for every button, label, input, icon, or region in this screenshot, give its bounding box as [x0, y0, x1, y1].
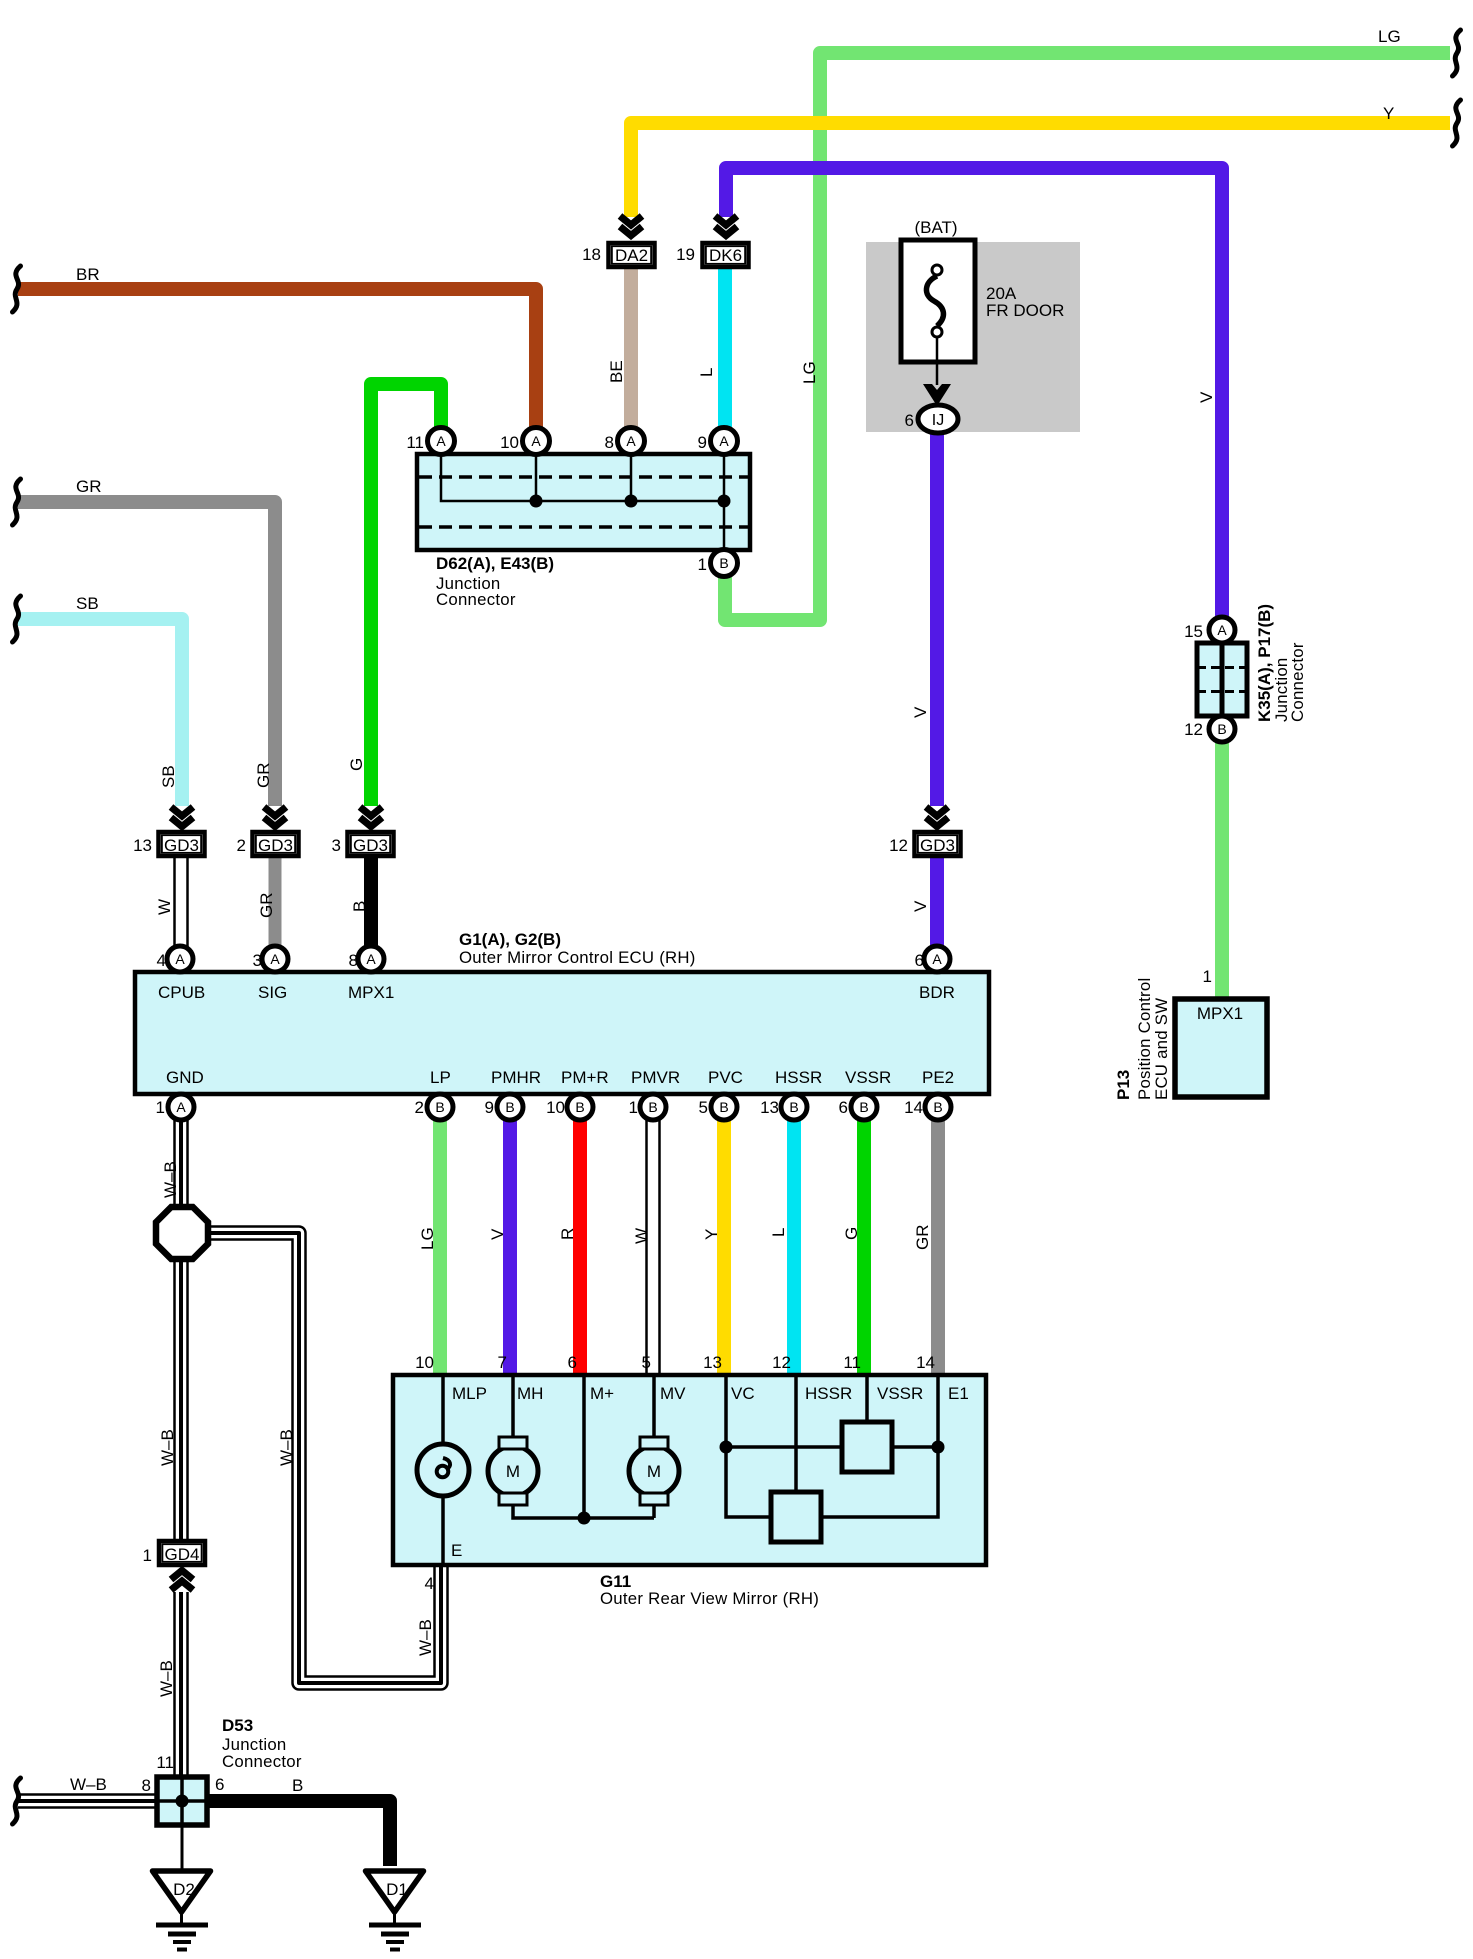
svg-text:14: 14 — [916, 1353, 935, 1372]
D62 pin 1 B — [711, 550, 738, 577]
fuse panel gray box — [866, 242, 1080, 432]
svg-text:11: 11 — [406, 433, 424, 452]
svg-text:A: A — [531, 433, 541, 449]
component square (HSSR heater) — [771, 1492, 821, 1542]
ECU pin 1 B — [640, 1094, 666, 1120]
svg-text:W: W — [632, 1228, 651, 1244]
svg-text:GR: GR — [257, 893, 276, 919]
wire V (DK6 to K35 pin 15A) — [726, 168, 1222, 624]
mirror pin names — [452, 1384, 969, 1403]
svg-text:PE2: PE2 — [922, 1068, 954, 1087]
wire GR (ECU PE2 to mirror E1) — [931, 1118, 945, 1378]
lamp MLP — [417, 1444, 469, 1496]
off-page squiggle LG — [1453, 30, 1461, 76]
wire (D53 bottom to ground D2) — [181, 1824, 184, 1870]
wire L (ECU HSSR to mirror HSSR) — [787, 1118, 801, 1378]
svg-text:GR: GR — [254, 763, 273, 789]
svg-text:MV: MV — [660, 1384, 686, 1403]
ECU top pin names — [158, 983, 955, 1002]
mirror pin numbers — [415, 1353, 935, 1372]
svg-text:10: 10 — [546, 1098, 565, 1117]
svg-text:FR DOOR: FR DOOR — [986, 301, 1064, 320]
arrow into DK6 — [715, 216, 737, 236]
svg-text:M: M — [647, 1462, 661, 1481]
fuse 20A FR DOOR — [901, 240, 975, 406]
connector IJ oval — [918, 405, 958, 433]
svg-text:R: R — [558, 1228, 577, 1240]
wire W-B (octagon down to GD4) — [173, 1255, 189, 1542]
svg-text:LG: LG — [800, 361, 819, 384]
D62 pin 8 A — [618, 428, 645, 455]
svg-text:B: B — [648, 1099, 657, 1115]
label D53 Junction Connector — [222, 1716, 302, 1771]
arrow into GD4 (pointing up) — [171, 1571, 193, 1591]
svg-text:SB: SB — [159, 765, 178, 788]
svg-text:PM+R: PM+R — [561, 1068, 609, 1087]
svg-text:1: 1 — [629, 1098, 638, 1117]
connector GD3 #2 — [253, 832, 299, 856]
connector DA2 — [609, 243, 655, 267]
svg-text:A: A — [719, 433, 729, 449]
svg-text:MLP: MLP — [452, 1384, 487, 1403]
off-page squiggle BR — [13, 266, 21, 312]
wire W-B (GD4 arrow down to D53 pin 11) — [173, 1592, 189, 1779]
P13 box Position Control ECU and SW — [1175, 999, 1267, 1097]
svg-text:G1(A), G2(B): G1(A), G2(B) — [459, 930, 561, 949]
svg-text:6: 6 — [215, 1775, 224, 1794]
component square (VSSR sensor) — [842, 1422, 892, 1472]
arrow into GD3 #3 — [360, 807, 382, 827]
wire BR (left edge to D62 pin 10A) — [18, 289, 536, 430]
svg-text:6: 6 — [568, 1353, 577, 1372]
ECU pin 14 B — [925, 1094, 951, 1120]
svg-text:12: 12 — [1184, 720, 1203, 739]
svg-text:13: 13 — [760, 1098, 779, 1117]
connector GD3 #12 — [915, 832, 961, 856]
svg-text:W–B: W–B — [416, 1619, 435, 1656]
svg-text:18: 18 — [582, 245, 601, 264]
svg-text:Y: Y — [702, 1229, 721, 1240]
ground D2 — [153, 1871, 211, 1950]
svg-text:E1: E1 — [948, 1384, 969, 1403]
svg-text:BR: BR — [76, 265, 100, 284]
svg-text:M+: M+ — [590, 1384, 614, 1403]
wire R (ECU PM+R to mirror M+) — [573, 1118, 587, 1378]
label D62(A), E43(B) Junction Connector — [436, 554, 554, 609]
wire SB (left edge to GD3 #13) — [18, 619, 182, 806]
svg-text:GND: GND — [166, 1068, 204, 1087]
ECU pin 3 A — [262, 946, 288, 972]
svg-text:GR: GR — [76, 477, 102, 496]
svg-text:A: A — [175, 951, 185, 967]
ECU pin 2 B — [427, 1094, 453, 1120]
wire L (DK6 to D62 pin 9A) — [718, 266, 732, 430]
ECU pin 13 B — [781, 1094, 807, 1120]
svg-text:MH: MH — [517, 1384, 543, 1403]
svg-text:12: 12 — [889, 836, 908, 855]
svg-text:GR: GR — [913, 1225, 932, 1251]
svg-text:19: 19 — [676, 245, 695, 264]
svg-text:SB: SB — [76, 594, 99, 613]
svg-text:10: 10 — [415, 1353, 434, 1372]
svg-text:HSSR: HSSR — [775, 1068, 822, 1087]
svg-text:DA2: DA2 — [615, 246, 648, 265]
svg-text:V: V — [911, 900, 930, 912]
svg-text:12: 12 — [772, 1353, 791, 1372]
ECU pin 10 B — [567, 1094, 593, 1120]
svg-text:B: B — [435, 1099, 444, 1115]
svg-text:SIG: SIG — [258, 983, 287, 1002]
wire W-B (octagon branch right-down-right-up to mirror pin 4 E) — [206, 1233, 441, 1683]
wire Y (top right to DA2) — [631, 123, 1450, 217]
label G11 Outer Rear View Mirror — [600, 1572, 819, 1608]
wire LG battery feed (top right to D62 pin 1B) — [725, 53, 1450, 620]
connector GD3 #3 — [348, 832, 394, 856]
D62 pin 9 A — [711, 428, 738, 455]
D62 pin numbers — [406, 433, 707, 574]
wire G (ECU VSSR to mirror VSSR) — [857, 1118, 871, 1378]
svg-text:V: V — [911, 706, 930, 718]
svg-text:9: 9 — [485, 1098, 494, 1117]
svg-text:7: 7 — [498, 1353, 507, 1372]
ground D1 — [366, 1871, 424, 1950]
svg-text:BDR: BDR — [919, 983, 955, 1002]
svg-text:Connector: Connector — [1288, 642, 1307, 722]
label 20A FR DOOR — [986, 284, 1064, 320]
arrow into DA2 — [620, 216, 642, 236]
svg-text:15: 15 — [1184, 622, 1203, 641]
off-page squiggle GR — [13, 479, 21, 525]
label K35(A), P17(B) Junction Connector rotated — [1255, 604, 1307, 722]
svg-text:1: 1 — [143, 1546, 152, 1565]
svg-text:V: V — [488, 1228, 507, 1240]
wire V (GD3 #12 to ECU pin 6A BDR) — [930, 857, 944, 950]
svg-text:Connector: Connector — [222, 1752, 302, 1771]
svg-text:PMVR: PMVR — [631, 1068, 680, 1087]
svg-text:5: 5 — [642, 1353, 651, 1372]
label P13 Position Control ECU and SW rotated — [1114, 978, 1171, 1100]
svg-text:M: M — [506, 1462, 520, 1481]
junction connector D53 — [157, 1777, 207, 1825]
svg-text:E: E — [451, 1541, 462, 1560]
octagon junction — [156, 1207, 208, 1259]
svg-text:LG: LG — [1378, 27, 1401, 46]
svg-text:G: G — [842, 1227, 861, 1240]
svg-text:CPUB: CPUB — [158, 983, 205, 1002]
ECU pin 6 A — [924, 946, 950, 972]
arrow into GD3 #2 — [264, 807, 286, 827]
svg-text:MPX1: MPX1 — [348, 983, 394, 1002]
wire color labels rotated mid — [418, 1225, 932, 1251]
svg-text:B: B — [505, 1099, 514, 1115]
svg-text:B: B — [575, 1099, 584, 1115]
svg-text:6: 6 — [839, 1098, 848, 1117]
svg-text:GD3: GD3 — [164, 836, 199, 855]
svg-text:L: L — [697, 368, 716, 377]
svg-text:G: G — [347, 758, 366, 771]
svg-text:B: B — [859, 1099, 868, 1115]
svg-text:(BAT): (BAT) — [914, 218, 957, 237]
ECU pin 9 B — [497, 1094, 523, 1120]
connector GD4 with up arrow — [159, 1541, 205, 1565]
wire GR (left edge to GD3 #2) — [18, 502, 275, 806]
D62 pin 10 A — [523, 428, 550, 455]
connector GD3 #13 — [159, 832, 205, 856]
svg-text:B: B — [789, 1099, 798, 1115]
wire LG (ECU LP to mirror MLP) — [433, 1118, 447, 1378]
svg-text:A: A — [626, 433, 636, 449]
svg-text:BE: BE — [607, 360, 626, 383]
svg-text:A: A — [1217, 622, 1227, 638]
wire W-B (left edge to D53 pin 8) — [18, 1793, 160, 1809]
svg-text:A: A — [436, 433, 446, 449]
svg-text:ECU and SW: ECU and SW — [1152, 998, 1171, 1100]
K35 pin numbers — [1184, 622, 1203, 739]
svg-text:PMHR: PMHR — [491, 1068, 541, 1087]
svg-text:6: 6 — [915, 951, 924, 970]
svg-text:8: 8 — [349, 951, 358, 970]
svg-text:B: B — [719, 555, 728, 571]
wire BE (DA2 to D62 pin 8A) — [624, 266, 638, 430]
svg-text:GD4: GD4 — [165, 1545, 200, 1564]
svg-text:1: 1 — [1203, 967, 1212, 986]
svg-text:PVC: PVC — [708, 1068, 743, 1087]
wire Y (ECU PVC to mirror VC) — [717, 1118, 731, 1378]
wire W-B (ECU pin 1A GND down to octagon junction) — [173, 1118, 189, 1213]
junction connector K35(A),P17(B) — [1197, 643, 1247, 716]
svg-text:W–B: W–B — [70, 1775, 107, 1794]
svg-text:W–B: W–B — [157, 1660, 176, 1697]
svg-text:3: 3 — [332, 836, 341, 855]
svg-text:8: 8 — [142, 1776, 151, 1795]
wire W (ECU PMVR to mirror MV) — [645, 1118, 661, 1378]
motor M (MH) — [488, 1437, 538, 1505]
svg-text:A: A — [270, 951, 280, 967]
svg-text:D2: D2 — [173, 1880, 195, 1899]
svg-text:P13: P13 — [1114, 1070, 1133, 1100]
ECU bottom pin names — [166, 1068, 954, 1087]
wire B (GD3 #3 to ECU pin 8A MPX1) — [364, 857, 378, 950]
motor M (MV) — [629, 1437, 679, 1505]
svg-text:2: 2 — [415, 1098, 424, 1117]
wire GR (GD3 #2 to ECU pin 3A SIG) — [269, 857, 282, 950]
ECU bottom pin numbers — [156, 1098, 923, 1117]
svg-text:W–B: W–B — [161, 1161, 180, 1198]
svg-text:B: B — [1217, 721, 1226, 737]
svg-text:LP: LP — [430, 1068, 451, 1087]
svg-text:Outer Mirror Control ECU (RH): Outer Mirror Control ECU (RH) — [459, 948, 696, 967]
junction connector D62(A),E43(B) — [417, 454, 750, 550]
ECU pin 6 B — [851, 1094, 877, 1120]
arrow into GD3 #13 — [171, 807, 193, 827]
svg-text:4: 4 — [157, 951, 166, 970]
svg-text:11: 11 — [843, 1353, 861, 1372]
D62 pin 11 A — [428, 428, 455, 455]
svg-text:3: 3 — [253, 951, 262, 970]
K35 pin 12 B — [1209, 716, 1235, 742]
svg-text:9: 9 — [698, 433, 707, 452]
svg-text:2: 2 — [237, 836, 246, 855]
svg-text:6: 6 — [905, 411, 914, 430]
svg-text:W–B: W–B — [158, 1429, 177, 1466]
label G1(A), G2(B) ECU title — [459, 930, 696, 967]
svg-text:W: W — [155, 899, 174, 915]
connector DK6 — [703, 243, 749, 267]
ECU pin 8 A — [358, 946, 384, 972]
svg-text:14: 14 — [904, 1098, 923, 1117]
arrow into GD3 #12 — [926, 807, 948, 827]
wire V (fuse IJ to GD3 #12) — [930, 430, 944, 806]
svg-text:V: V — [1197, 391, 1216, 403]
svg-text:HSSR: HSSR — [805, 1384, 852, 1403]
svg-text:A: A — [932, 951, 942, 967]
svg-text:8: 8 — [605, 433, 614, 452]
mirror box G11 — [393, 1375, 986, 1565]
svg-text:1: 1 — [698, 555, 707, 574]
wire G (D62 pin 11A to GD3 #3) — [371, 384, 441, 806]
svg-text:VSSR: VSSR — [877, 1384, 923, 1403]
off-page squiggle W-B — [13, 1778, 21, 1824]
svg-text:MPX1: MPX1 — [1197, 1004, 1243, 1023]
wire V (ECU PMHR to mirror MH) — [503, 1118, 517, 1378]
svg-text:13: 13 — [703, 1353, 722, 1372]
wire LG (K35 pin 12B to P13 MPX1) — [1215, 740, 1229, 998]
svg-text:A: A — [366, 951, 376, 967]
svg-text:D53: D53 — [222, 1716, 253, 1735]
svg-text:1: 1 — [156, 1098, 165, 1117]
off-page squiggle Y — [1453, 100, 1461, 146]
svg-text:LG: LG — [418, 1227, 437, 1250]
svg-text:VSSR: VSSR — [845, 1068, 891, 1087]
svg-text:10: 10 — [500, 433, 519, 452]
svg-text:GD3: GD3 — [353, 836, 388, 855]
svg-text:B: B — [350, 901, 369, 912]
svg-text:B: B — [933, 1099, 942, 1115]
svg-text:D1: D1 — [386, 1880, 408, 1899]
ECU pin 4 A — [167, 946, 193, 972]
K35 pin 15 A — [1209, 617, 1235, 643]
svg-text:L: L — [769, 1228, 788, 1237]
D53 pin numbers — [142, 1753, 225, 1795]
ECU pin 1 A GND — [168, 1094, 194, 1120]
svg-text:4: 4 — [425, 1574, 434, 1593]
ECU pin 5 B — [711, 1094, 737, 1120]
svg-text:DK6: DK6 — [709, 246, 742, 265]
wire B (D53 pin 6 to ground D1) — [206, 1801, 390, 1866]
ECU top pin numbers — [157, 951, 924, 970]
svg-text:5: 5 — [699, 1098, 708, 1117]
svg-text:B: B — [292, 1776, 303, 1795]
svg-text:11: 11 — [156, 1753, 174, 1772]
svg-text:VC: VC — [731, 1384, 755, 1403]
wire W (GD3 #13 to ECU pin 4A CPUB) — [173, 857, 189, 950]
svg-text:GD3: GD3 — [920, 836, 955, 855]
svg-text:B: B — [719, 1099, 728, 1115]
svg-text:IJ: IJ — [932, 412, 944, 429]
svg-text:D62(A), E43(B): D62(A), E43(B) — [436, 554, 554, 573]
svg-text:GD3: GD3 — [258, 836, 293, 855]
off-page squiggle SB — [13, 596, 21, 642]
svg-text:Connector: Connector — [436, 590, 516, 609]
svg-text:Outer Rear View Mirror (RH): Outer Rear View Mirror (RH) — [600, 1589, 819, 1608]
svg-text:W–B: W–B — [277, 1429, 296, 1466]
svg-text:13: 13 — [133, 836, 152, 855]
svg-text:A: A — [176, 1099, 186, 1115]
svg-text:Y: Y — [1383, 104, 1394, 123]
ECU box G1(A),G2(B) — [135, 972, 989, 1094]
